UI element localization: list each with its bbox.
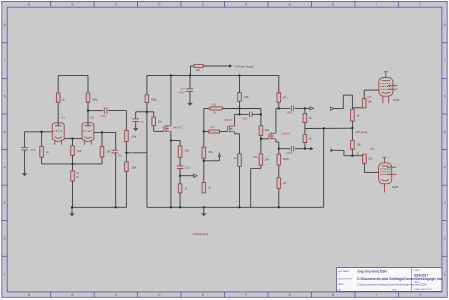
ground bottom left bbox=[71, 207, 73, 213]
svg-text:DATE:: DATE: bbox=[414, 269, 420, 272]
svg-text:3: 3 bbox=[4, 201, 6, 205]
resistor R output lower bbox=[125, 162, 129, 172]
transistor Q3 LND150 bbox=[268, 133, 270, 138]
wire U2 plate column bbox=[87, 75, 89, 93]
capacitor C HT filter bbox=[186, 88, 193, 90]
ground input bbox=[22, 173, 28, 176]
wire bypass column bbox=[115, 132, 117, 150]
svg-text:10k: 10k bbox=[196, 68, 201, 72]
resistor R Q2 source bbox=[238, 154, 242, 166]
wire splitter top column bbox=[278, 75, 280, 93]
svg-text:1M: 1M bbox=[158, 120, 162, 124]
wire left column top bbox=[146, 75, 148, 94]
wire ground return column bbox=[323, 128, 325, 207]
node output tap bbox=[125, 152, 127, 154]
terminal sense arrow bbox=[203, 160, 205, 162]
resistor R grid top bbox=[351, 109, 355, 121]
svg-text:PAGE:: PAGE: bbox=[414, 281, 420, 284]
node RC bottom bbox=[239, 113, 241, 115]
svg-text:1k5: 1k5 bbox=[77, 149, 82, 153]
svg-text:1k8: 1k8 bbox=[265, 128, 270, 132]
wire input to U1 grid bbox=[25, 131, 53, 133]
svg-text:47k: 47k bbox=[283, 96, 288, 100]
svg-text:7: 7 bbox=[4, 59, 6, 63]
wire V2 side pins bbox=[387, 166, 396, 168]
svg-text:1: 1 bbox=[444, 272, 446, 276]
wire Q3 drain up bbox=[275, 108, 277, 133]
wire to fet1 gate bbox=[153, 126, 155, 132]
node HT cap bbox=[189, 74, 191, 76]
resistor R29 bbox=[362, 99, 366, 108]
wire gate2 wire bbox=[204, 131, 209, 133]
svg-text:5: 5 bbox=[4, 130, 6, 134]
wire Q2 source bbox=[234, 131, 236, 133]
node gate3 bbox=[260, 138, 262, 140]
svg-text:REV:: REV: bbox=[393, 289, 398, 291]
wire in bottom bbox=[334, 149, 344, 151]
wire output column mid bbox=[125, 142, 127, 162]
capacitor C out bottom bbox=[290, 146, 292, 152]
node gate2 bbox=[203, 131, 205, 133]
svg-text:10nF: 10nF bbox=[30, 149, 36, 152]
svg-text:8/24/2017: 8/24/2017 bbox=[414, 274, 428, 278]
node test tap bbox=[179, 175, 181, 177]
wire V1 top pin bbox=[385, 72, 387, 78]
wire bypass to bus bbox=[115, 153, 117, 207]
svg-text:4: 4 bbox=[444, 166, 446, 170]
svg-text:22k: 22k bbox=[185, 148, 190, 152]
svg-text:TIME: 3:46:32 PM: TIME: 3:46:32 PM bbox=[414, 289, 432, 291]
wire left column bbox=[146, 103, 148, 208]
wire to bus bbox=[239, 166, 241, 207]
resistor R 220k bbox=[145, 95, 149, 103]
svg-text:F: F bbox=[245, 3, 247, 7]
resistor R mid column top bbox=[238, 93, 242, 102]
svg-text:loop tiny lemo.DSN: loop tiny lemo.DSN bbox=[358, 270, 388, 274]
wire grid top column bbox=[351, 95, 353, 109]
node cathodes bbox=[72, 138, 74, 140]
wire RC cap left bbox=[240, 113, 249, 115]
capacitor C coupling 0.022 bbox=[103, 107, 105, 114]
svg-text:E: E bbox=[202, 293, 204, 297]
wire chain to bus bbox=[179, 193, 181, 208]
resistor R grid leak U2 bbox=[100, 146, 104, 157]
node bias mid bbox=[323, 127, 325, 129]
subcircuit box Cathode Amp bbox=[131, 57, 328, 229]
node bus b bbox=[179, 206, 181, 208]
svg-text:DESIGN TITLE:: DESIGN TITLE: bbox=[338, 279, 353, 281]
resistor R gate 1M bbox=[152, 117, 156, 125]
wire V1 bottom pins bbox=[383, 96, 389, 103]
resistor R27 horizontal bbox=[209, 130, 220, 133]
svg-text:R30: R30 bbox=[370, 148, 375, 151]
svg-text:220k: 220k bbox=[151, 97, 157, 101]
wire RC loop down bbox=[239, 109, 241, 115]
wire supply corner bbox=[190, 66, 192, 75]
svg-text:47k: 47k bbox=[208, 150, 213, 154]
wire bottom out right bbox=[295, 148, 310, 150]
svg-text:47k: 47k bbox=[283, 181, 288, 185]
terminal out bottom bbox=[310, 147, 314, 150]
wire r29 branch bbox=[352, 107, 364, 109]
resistor R30 bbox=[363, 154, 367, 163]
terminal in bottom bbox=[331, 149, 335, 152]
wire interstage top bbox=[204, 108, 210, 110]
resistor R 1k chain bbox=[178, 184, 182, 193]
wire Q1 drain up bbox=[170, 75, 172, 126]
node bus left bbox=[71, 206, 73, 208]
tube U2 bbox=[82, 123, 94, 142]
node out bottom bbox=[304, 148, 306, 150]
resistor R grid bottom bbox=[351, 140, 355, 149]
svg-text:100nF: 100nF bbox=[286, 112, 293, 115]
svg-text:560R: 560R bbox=[283, 157, 289, 161]
node bus e bbox=[278, 206, 280, 208]
node RC right bbox=[260, 113, 262, 115]
resistor R 1k interstage bbox=[202, 183, 206, 194]
node Q1 source bbox=[170, 140, 172, 142]
terminal out top bbox=[310, 107, 314, 110]
wire U2 grid leak bbox=[101, 132, 103, 146]
svg-text:100k: 100k bbox=[92, 98, 98, 102]
svg-text:B: B bbox=[71, 293, 73, 297]
wire to join bbox=[351, 149, 353, 156]
resistor R splitter top 47k bbox=[277, 93, 281, 102]
svg-text:25u: 25u bbox=[118, 155, 123, 158]
node U2 plate tap bbox=[87, 110, 89, 112]
svg-text:2: 2 bbox=[444, 237, 446, 241]
wire gate3 bbox=[260, 136, 262, 154]
svg-text:F: F bbox=[245, 293, 247, 297]
wire R29 top to grid bbox=[363, 90, 365, 99]
wire interstage column bbox=[203, 109, 205, 183]
svg-text:8: 8 bbox=[4, 23, 6, 27]
svg-text:2: 2 bbox=[4, 237, 6, 241]
svg-text:0.022: 0.022 bbox=[100, 115, 107, 118]
wire grid leak bottom bbox=[41, 157, 43, 164]
svg-text:BF245C: BF245C bbox=[173, 127, 182, 130]
svg-text:LND150: LND150 bbox=[281, 132, 290, 135]
resistor R 47k interstage bbox=[202, 147, 206, 158]
wire cathode down bbox=[72, 139, 74, 146]
ground main bbox=[201, 213, 207, 216]
wire V2 top pin bbox=[384, 158, 386, 163]
svg-text:LND150: LND150 bbox=[223, 119, 232, 122]
wire grid leak top bbox=[41, 132, 43, 147]
wire RC right top bbox=[240, 108, 261, 110]
wire Q1 source down bbox=[170, 131, 172, 207]
svg-text:PATH:: PATH: bbox=[338, 283, 344, 286]
wire Q2 drain bbox=[234, 114, 236, 126]
node U2 grid bbox=[101, 131, 103, 133]
wire bottom bus bbox=[147, 206, 324, 208]
svg-text:10k: 10k bbox=[265, 157, 270, 161]
wire RC cap right bbox=[252, 113, 261, 115]
wire plate tap to coupling cap bbox=[88, 110, 103, 112]
wire top out left bbox=[279, 107, 290, 109]
svg-text:100nF: 100nF bbox=[286, 152, 293, 155]
wire U1 plate pin bbox=[57, 102, 59, 126]
svg-text:EL84: EL84 bbox=[393, 98, 400, 102]
wire decouple cap bbox=[135, 112, 137, 119]
svg-text:BY:: BY: bbox=[338, 289, 342, 291]
wire top out right bbox=[295, 107, 310, 109]
wire tap to right bbox=[126, 152, 146, 154]
svg-text:4: 4 bbox=[4, 166, 6, 170]
wire U2 grid right bbox=[94, 131, 116, 133]
wire HT cap down bbox=[189, 75, 191, 89]
svg-text:C:\Documents and Settings\Owne: C:\Documents and Settings\Owner\Desktop\… bbox=[357, 283, 427, 286]
svg-text:To Power Supply: To Power Supply bbox=[234, 65, 254, 69]
resistor R26 bbox=[259, 154, 263, 165]
svg-text:10k: 10k bbox=[357, 143, 362, 147]
svg-text:Out going: Out going bbox=[356, 131, 368, 134]
svg-text:1: 1 bbox=[4, 272, 6, 276]
transistor Q1 BF245 bbox=[163, 126, 165, 131]
wire cathode bus left bbox=[42, 163, 103, 165]
capacitor C RC loop bbox=[249, 112, 251, 118]
node bus d bbox=[239, 206, 241, 208]
wire in top bbox=[334, 108, 343, 110]
wire output column upper bbox=[125, 111, 127, 131]
resistor R cathode bbox=[71, 146, 75, 156]
wire chain mid bbox=[179, 158, 181, 167]
capacitor C bypass 25u bbox=[111, 149, 118, 151]
resistor R28 horizontal bbox=[210, 107, 222, 110]
terminal arrow mid bbox=[194, 174, 198, 177]
wire cathode resistor to bus bbox=[72, 155, 74, 164]
transistor Q2 bbox=[227, 126, 229, 131]
svg-text:R29: R29 bbox=[367, 96, 372, 99]
svg-text:1M: 1M bbox=[107, 150, 111, 154]
wire U2 plate pin bbox=[87, 102, 89, 126]
resistor R bias top bbox=[303, 114, 307, 123]
wire mid column bbox=[239, 75, 241, 92]
wire chain lower bbox=[179, 169, 181, 184]
wire V1 side pins bbox=[388, 85, 397, 87]
ground HT filter bbox=[187, 103, 193, 106]
wire cap to ground bbox=[189, 92, 191, 103]
wire ground stub bbox=[203, 207, 205, 213]
wire resistor to terminal bbox=[203, 65, 229, 67]
wire R2 top bbox=[72, 164, 74, 171]
svg-text:6: 6 bbox=[444, 94, 446, 98]
resistor R 560R bbox=[277, 154, 281, 165]
wire R28 to node bbox=[222, 108, 239, 110]
svg-text:R27: R27 bbox=[211, 126, 216, 129]
wire V2 bottom pin bbox=[384, 184, 386, 193]
node out top bbox=[304, 107, 306, 109]
node splitter top bbox=[278, 107, 280, 109]
wire tap to arrow bbox=[180, 175, 193, 177]
node bus a bbox=[170, 206, 172, 208]
wire lower branch bbox=[351, 128, 353, 140]
tube U1 bbox=[52, 123, 64, 142]
node bus c bbox=[203, 206, 205, 208]
svg-text:10k: 10k bbox=[367, 99, 372, 103]
wire supply feed bbox=[191, 65, 195, 67]
tube V1 EL84 top bbox=[379, 78, 393, 97]
svg-text:450V: 450V bbox=[179, 91, 185, 94]
svg-text:8: 8 bbox=[444, 23, 446, 27]
resistor R gate3 bbox=[259, 126, 263, 136]
svg-text:R26: R26 bbox=[253, 156, 258, 159]
node HT r bbox=[239, 74, 241, 76]
wire HT bus bbox=[147, 74, 279, 76]
svg-text:110k: 110k bbox=[243, 95, 249, 99]
svg-text:U1: U1 bbox=[62, 116, 66, 120]
wire splitter to bus bbox=[278, 188, 280, 207]
node cathode bus bbox=[72, 163, 74, 165]
wire cap to output column bbox=[108, 110, 126, 112]
wire gate feed left bbox=[136, 111, 147, 113]
svg-text:B: B bbox=[71, 3, 73, 7]
resistor R plate U2 bbox=[86, 93, 90, 102]
ground decouple bbox=[133, 128, 139, 131]
svg-text:Cathode Amp: Cathode Amp bbox=[193, 233, 209, 236]
wire splitter bbox=[278, 102, 280, 108]
svg-text:100k: 100k bbox=[131, 134, 137, 138]
wire bias lower bbox=[304, 143, 306, 149]
wire bias mid out bbox=[305, 127, 353, 129]
wire Q3 source down bbox=[275, 139, 277, 142]
wire bias column bbox=[304, 108, 306, 113]
svg-text:6: 6 bbox=[4, 94, 6, 98]
resistor R2 bbox=[71, 171, 75, 181]
capacitor C 2u2 bbox=[177, 165, 184, 167]
resistor R plate U1 bbox=[56, 93, 60, 102]
svg-text:EL84: EL84 bbox=[392, 185, 399, 189]
node fet1 gate feed bbox=[146, 111, 148, 113]
wire to cathode bus bbox=[101, 157, 103, 164]
wire splitter source resistor bbox=[278, 149, 280, 155]
resistor R output upper bbox=[125, 130, 129, 141]
resistor R bias bottom bbox=[303, 135, 307, 143]
wire Q2 source column bbox=[239, 134, 241, 154]
terminal in top bbox=[331, 107, 335, 110]
wire gate3 to Q3 bbox=[261, 138, 269, 140]
wire grid top to node bbox=[351, 121, 353, 128]
node HT fet1 bbox=[170, 74, 172, 76]
wire decouple ground bbox=[135, 122, 137, 129]
svg-text:U2: U2 bbox=[91, 116, 95, 120]
resistor R grid leak bbox=[40, 146, 44, 157]
node join bottom bbox=[351, 155, 353, 157]
svg-text:FILE NAME:: FILE NAME: bbox=[338, 270, 350, 273]
resistor R 47k lower bbox=[277, 178, 281, 189]
svg-text:100n: 100n bbox=[242, 117, 248, 120]
wire output column bottom bbox=[125, 171, 127, 207]
node RC top bbox=[239, 108, 241, 110]
wire splitter lower bbox=[278, 165, 280, 178]
svg-text:I: I bbox=[376, 293, 377, 297]
wire gate feed right bbox=[147, 111, 154, 113]
title block bbox=[337, 268, 449, 292]
wire R26 bottom bbox=[260, 165, 262, 168]
svg-text:100k: 100k bbox=[131, 165, 137, 169]
wire R30 to grid bbox=[363, 163, 365, 172]
svg-text:I: I bbox=[376, 3, 377, 7]
node input divider bbox=[41, 131, 43, 133]
capacitor C decouple bbox=[132, 118, 139, 120]
wire cap to ground bbox=[24, 150, 26, 173]
wire R2 to bottom bus bbox=[72, 181, 74, 207]
svg-text:7: 7 bbox=[444, 59, 446, 63]
wire cathodes joined bbox=[64, 138, 82, 140]
terminal To Power Supply bbox=[229, 64, 233, 67]
wire input down to cap bbox=[24, 132, 26, 147]
wire source to RC chain bbox=[171, 140, 180, 142]
wire top bus U1/U2 plates bbox=[58, 74, 88, 76]
svg-text:C:\Documents and Settings\Owne: C:\Documents and Settings\Owner\Desktop\… bbox=[357, 277, 449, 281]
node bias top bbox=[351, 127, 353, 129]
wire bottom left bus bbox=[72, 206, 126, 208]
wire U1 plate column bbox=[57, 75, 59, 93]
svg-text:3: 3 bbox=[444, 201, 446, 205]
node splitter bottom bbox=[278, 148, 280, 150]
wire bottom out left bbox=[279, 148, 290, 150]
capacitor C out top bbox=[290, 106, 292, 112]
svg-text:10k: 10k bbox=[368, 157, 373, 161]
node bus mid bbox=[115, 206, 117, 208]
tube V2 EL84 bottom bbox=[379, 163, 392, 184]
svg-text:2.2u: 2.2u bbox=[185, 165, 191, 169]
arrow sense bbox=[218, 153, 220, 156]
svg-text:E: E bbox=[202, 3, 204, 7]
resistor R 22k bbox=[178, 146, 182, 158]
resistor R supply bbox=[194, 64, 203, 67]
svg-text:5: 5 bbox=[444, 130, 446, 134]
svg-text:R28: R28 bbox=[212, 103, 217, 106]
capacitor C input bbox=[21, 146, 28, 148]
